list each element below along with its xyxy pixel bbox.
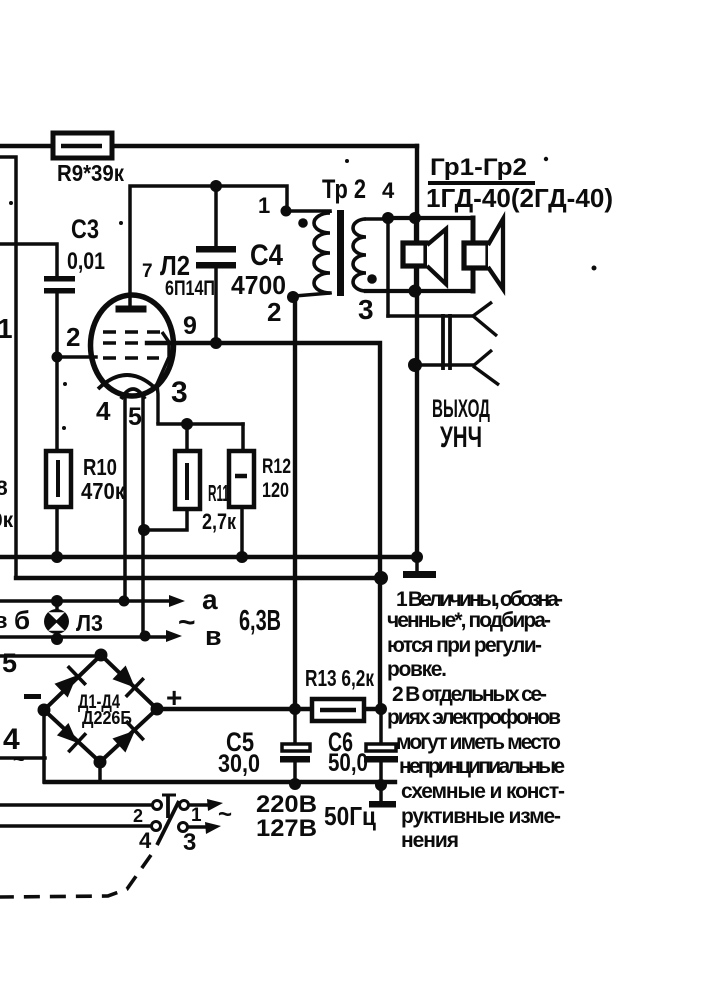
svg-text:50,0: 50,0 (328, 749, 368, 777)
svg-text:руктивные изме-: руктивные изме- (401, 805, 561, 828)
svg-text:ченные*, подбира-: ченные*, подбира- (387, 609, 551, 632)
svg-text:5: 5 (128, 403, 142, 431)
svg-text:2 В отдельных се-: 2 В отдельных се- (392, 683, 547, 706)
svg-text:4: 4 (139, 828, 152, 853)
svg-text:R13 6,2к: R13 6,2к (305, 665, 374, 691)
svg-text:R11: R11 (208, 480, 229, 506)
svg-text:4: 4 (96, 396, 111, 426)
svg-text:1: 1 (258, 193, 270, 218)
svg-text:ются при регули-: ются при регули- (387, 634, 542, 657)
svg-text:Гр1-Гр2: Гр1-Гр2 (430, 154, 527, 181)
svg-text:120: 120 (262, 479, 289, 502)
svg-text:3: 3 (358, 294, 374, 325)
svg-text:R10: R10 (83, 454, 117, 480)
svg-text:9: 9 (183, 312, 197, 340)
svg-text:риях электрофонов: риях электрофонов (387, 706, 561, 729)
svg-text:+: + (166, 682, 182, 713)
svg-text:Л3: Л3 (76, 610, 103, 636)
svg-text:могут иметь место: могут иметь место (396, 731, 561, 754)
svg-text:ровке.: ровке. (387, 658, 447, 681)
svg-text:3: 3 (183, 829, 196, 856)
svg-text:~: ~ (218, 801, 232, 828)
svg-text:1: 1 (191, 805, 202, 826)
svg-text:1: 1 (0, 313, 13, 344)
svg-text:Д226Б: Д226Б (82, 708, 132, 728)
svg-text:2: 2 (133, 806, 143, 826)
svg-text:2,7к: 2,7к (202, 509, 237, 534)
svg-text:1ГД-40(2ГД-40): 1ГД-40(2ГД-40) (426, 183, 613, 213)
svg-text:1 Величины, обозна-: 1 Величины, обозна- (396, 588, 563, 611)
svg-text:8: 8 (0, 477, 8, 500)
svg-text:R12: R12 (262, 455, 291, 478)
svg-text:50Гц: 50Гц (324, 801, 376, 831)
svg-text:R9*39к: R9*39к (57, 160, 124, 186)
svg-text:3: 3 (171, 376, 188, 409)
svg-text:непринципиальные: непринципиальные (399, 755, 565, 778)
svg-text:127В: 127В (256, 815, 317, 842)
svg-text:С3: С3 (71, 214, 99, 244)
svg-text:5: 5 (2, 648, 17, 678)
svg-text:~: ~ (178, 606, 196, 639)
svg-text:220В: 220В (256, 791, 317, 818)
svg-text:ВЫХОД: ВЫХОД (432, 395, 490, 423)
svg-text:нения: нения (401, 829, 459, 852)
svg-text:С4: С4 (250, 239, 283, 272)
svg-text:30,0: 30,0 (218, 750, 260, 778)
svg-text:УНЧ: УНЧ (440, 421, 482, 454)
svg-text:в: в (0, 608, 8, 633)
svg-text:0,01: 0,01 (67, 248, 105, 275)
svg-text:б: б (14, 605, 30, 635)
svg-text:Тр 2: Тр 2 (322, 174, 366, 204)
svg-text:2: 2 (66, 322, 80, 352)
svg-text:2: 2 (267, 297, 281, 327)
svg-text:6,3В: 6,3В (239, 605, 281, 637)
svg-text:0к: 0к (0, 509, 14, 532)
svg-text:схемные и конст-: схемные и конст- (401, 780, 565, 803)
svg-text:7: 7 (142, 261, 153, 282)
svg-text:а: а (202, 584, 218, 615)
svg-text:470к: 470к (81, 478, 125, 504)
svg-text:4: 4 (382, 178, 395, 203)
svg-text:в: в (205, 621, 222, 651)
svg-text:6П14П: 6П14П (165, 277, 215, 300)
svg-text:~: ~ (13, 749, 25, 771)
svg-text:4700: 4700 (231, 270, 286, 300)
